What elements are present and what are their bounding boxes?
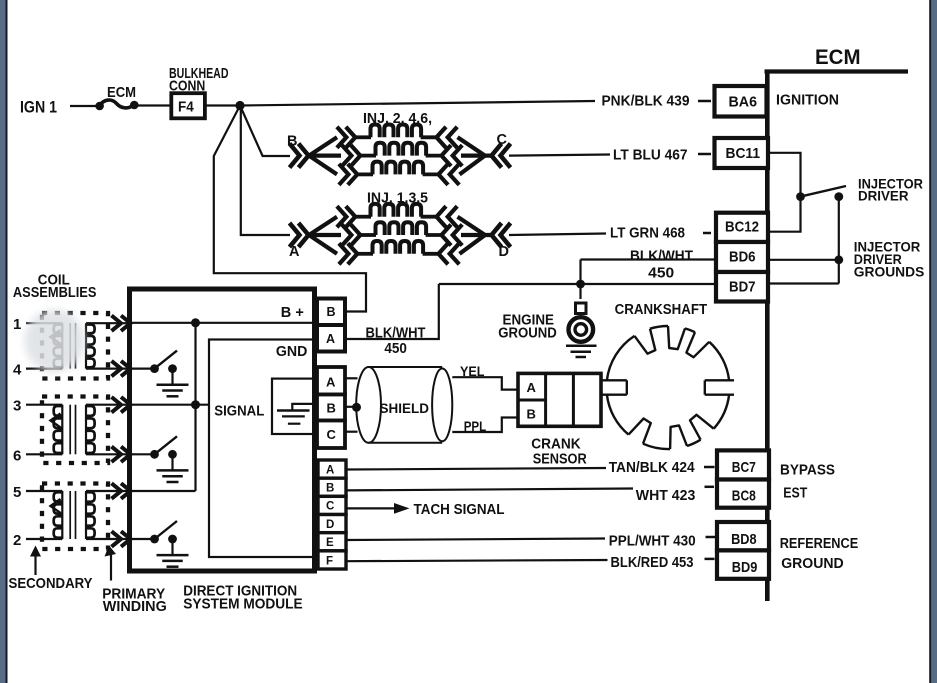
svg-text:WINDING: WINDING (103, 598, 167, 615)
svg-text:CRANKSHAFT: CRANKSHAFT (615, 302, 708, 318)
svg-text:450: 450 (384, 341, 407, 357)
svg-text:B +: B + (281, 305, 304, 321)
svg-text:2: 2 (13, 532, 21, 549)
svg-text:SYSTEM MODULE: SYSTEM MODULE (183, 596, 303, 613)
svg-text:WHT 423: WHT 423 (636, 487, 696, 504)
svg-text:TAN/BLK 424: TAN/BLK 424 (609, 459, 696, 476)
svg-text:BD9: BD9 (732, 559, 758, 576)
svg-text:ECM: ECM (815, 46, 861, 69)
svg-text:B: B (527, 407, 536, 422)
svg-text:TACH SIGNAL: TACH SIGNAL (414, 502, 505, 518)
svg-text:ECM: ECM (107, 84, 136, 101)
svg-text:4: 4 (13, 362, 22, 379)
svg-text:D: D (326, 519, 334, 531)
svg-text:450: 450 (648, 266, 674, 282)
svg-text:SHIELD: SHIELD (380, 400, 430, 416)
svg-text:SECONDARY: SECONDARY (9, 575, 93, 592)
svg-text:A: A (527, 380, 537, 395)
svg-text:BC11: BC11 (726, 145, 761, 162)
svg-text:D: D (499, 244, 509, 260)
svg-text:GROUND: GROUND (781, 556, 844, 572)
svg-text:INJ. 1,3,5: INJ. 1,3,5 (367, 191, 428, 207)
svg-text:C: C (497, 132, 508, 148)
svg-text:BLK/WHT: BLK/WHT (366, 326, 426, 342)
svg-text:A: A (326, 332, 335, 346)
svg-text:INJ. 2, 4,6,: INJ. 2, 4,6, (363, 111, 432, 127)
svg-text:GROUNDS: GROUNDS (854, 264, 925, 280)
svg-text:EST: EST (783, 486, 807, 502)
svg-text:B: B (327, 305, 336, 319)
svg-text:REFERENCE: REFERENCE (780, 536, 859, 552)
svg-text:F: F (326, 555, 333, 567)
svg-text:A: A (289, 244, 300, 260)
svg-text:LT BLU 467: LT BLU 467 (613, 147, 688, 164)
svg-text:IGNITION: IGNITION (776, 93, 839, 109)
svg-text:C: C (326, 501, 334, 513)
svg-text:GROUND: GROUND (498, 326, 557, 342)
svg-text:BYPASS: BYPASS (780, 463, 835, 479)
svg-text:BLK/WHT: BLK/WHT (630, 249, 693, 265)
svg-text:B: B (287, 134, 297, 150)
svg-text:5: 5 (13, 484, 21, 501)
svg-text:BA6: BA6 (729, 94, 758, 111)
svg-text:PNK/BLK 439: PNK/BLK 439 (602, 93, 690, 110)
svg-text:LT GRN 468: LT GRN 468 (610, 225, 685, 242)
svg-text:C: C (327, 427, 337, 442)
svg-text:BD6: BD6 (729, 249, 756, 266)
svg-text:F4: F4 (178, 99, 194, 116)
svg-text:SIGNAL: SIGNAL (214, 404, 264, 420)
svg-text:B: B (326, 483, 334, 495)
svg-text:ASSEMBLIES: ASSEMBLIES (13, 285, 97, 301)
svg-text:GND: GND (276, 344, 308, 360)
svg-text:3: 3 (13, 398, 21, 415)
svg-text:SENSOR: SENSOR (533, 452, 587, 468)
svg-text:B: B (327, 401, 336, 416)
svg-text:DRIVER: DRIVER (858, 188, 909, 204)
svg-text:E: E (326, 537, 334, 549)
svg-text:BC7: BC7 (732, 459, 756, 476)
svg-text:BC12: BC12 (725, 219, 759, 236)
svg-text:BD8: BD8 (731, 531, 757, 548)
svg-text:BLK/RED 453: BLK/RED 453 (611, 554, 694, 571)
svg-text:IGN 1: IGN 1 (20, 99, 57, 117)
svg-text:1: 1 (13, 316, 21, 333)
svg-text:CRANK: CRANK (531, 437, 581, 453)
svg-text:PPL/WHT 430: PPL/WHT 430 (609, 533, 696, 550)
svg-text:BC8: BC8 (732, 488, 756, 505)
svg-text:A: A (326, 375, 336, 390)
svg-text:6: 6 (13, 447, 21, 464)
svg-text:BD7: BD7 (729, 279, 756, 296)
svg-text:A: A (326, 464, 334, 476)
